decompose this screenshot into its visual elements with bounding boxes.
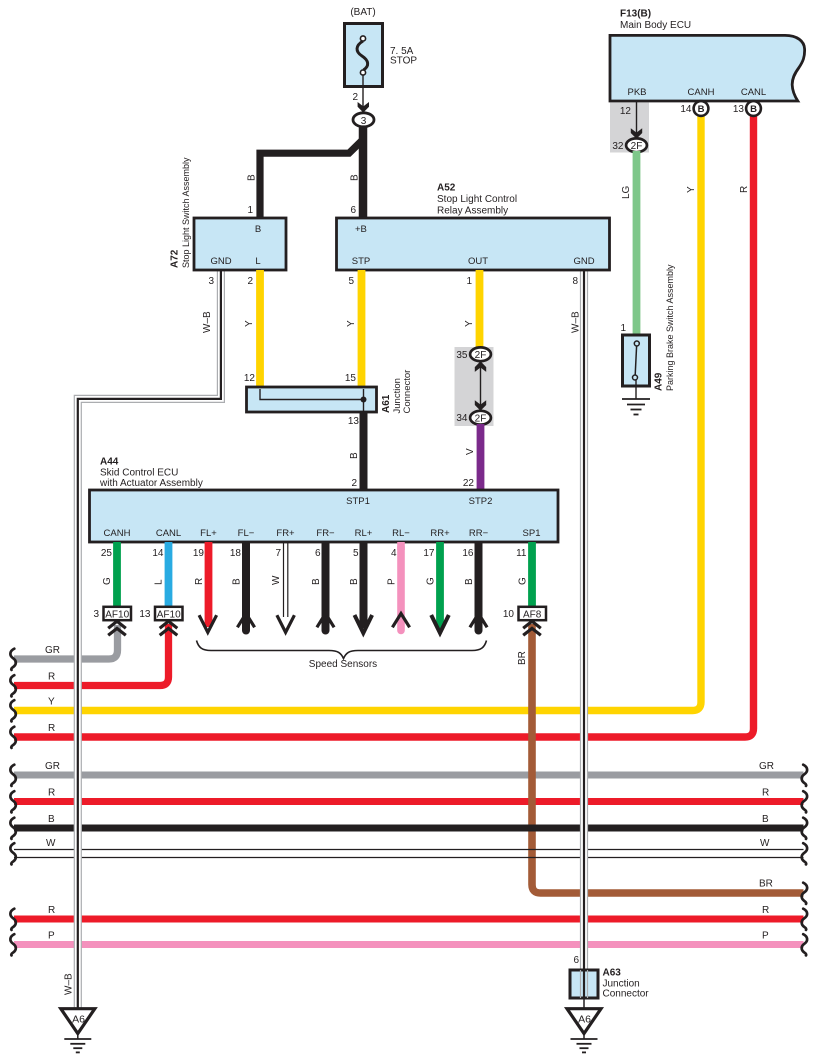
arrow open down (FR+) — [277, 615, 295, 632]
bus break marks left — [10, 649, 15, 670]
svg-text:13: 13 — [733, 104, 745, 115]
svg-text:A49: A49 — [654, 372, 665, 391]
A72 Stop Light Switch Assembly — [194, 218, 286, 270]
wire R (group2 bus) — [14, 798, 804, 805]
svg-text:4: 4 — [391, 548, 397, 559]
svg-text:BR: BR — [759, 879, 773, 890]
A61 Junction Connector — [247, 387, 377, 412]
arrow open up (FR-) — [317, 614, 334, 628]
svg-text:W: W — [46, 838, 56, 849]
svg-text:L: L — [154, 579, 165, 585]
svg-text:R: R — [48, 723, 55, 734]
svg-text:RR+: RR+ — [430, 528, 450, 539]
A52 Stop Light Control Relay Assembly — [337, 218, 610, 270]
svg-text:R: R — [48, 672, 55, 683]
svg-text:18: 18 — [230, 548, 242, 559]
svg-text:Skid Control ECU: Skid Control ECU — [100, 468, 178, 479]
svg-text:Connector: Connector — [603, 989, 650, 1000]
svg-text:FL+: FL+ — [200, 528, 217, 539]
connector AF8 (pin10) — [519, 607, 547, 620]
svg-text:B: B — [349, 452, 360, 459]
arrow open up (RR-) — [470, 614, 487, 628]
svg-text:Y: Y — [686, 186, 697, 193]
svg-text:P: P — [762, 931, 769, 942]
bus break marks right — [802, 765, 807, 786]
arrow open up (FL-) — [237, 614, 254, 628]
svg-text:AF10: AF10 — [157, 609, 181, 620]
svg-text:12: 12 — [620, 106, 632, 117]
svg-text:Y: Y — [346, 320, 357, 327]
svg-text:B: B — [750, 104, 757, 115]
svg-text:PKB: PKB — [627, 87, 646, 98]
svg-text:Connector: Connector — [402, 370, 413, 414]
connector B (F13 CANL pin13) — [746, 101, 761, 116]
arrow open down (FL+) — [199, 615, 217, 632]
wire V (2F 34 to A44 STP2) — [477, 424, 485, 490]
svg-text:16: 16 — [462, 548, 474, 559]
wire LG (2F 32 to A49 pin1) — [633, 151, 641, 335]
wire Y (A52 STP to A61 pin15) — [358, 270, 366, 387]
svg-text:A52: A52 — [437, 183, 456, 194]
wire W (FR+) — [283, 542, 285, 617]
A44 Skid Control ECU with Actuator Assembly — [90, 490, 559, 542]
svg-text:R: R — [48, 788, 55, 799]
svg-text:B: B — [311, 578, 322, 585]
wire GR (group1, to AF10 pin3) — [14, 625, 118, 659]
svg-text:Y: Y — [48, 697, 55, 708]
svg-text:R: R — [194, 578, 205, 585]
svg-text:CANH: CANH — [104, 528, 131, 539]
wire G (SP1 to AF8) — [528, 542, 536, 607]
svg-text:G: G — [102, 577, 113, 585]
svg-text:17: 17 — [423, 548, 435, 559]
wire L (CANL to AF10) — [165, 542, 173, 607]
A63 Junction Connector — [570, 970, 598, 998]
svg-text:A44: A44 — [100, 457, 119, 468]
wire Y (group1, to F13 CANH) — [14, 112, 701, 711]
wire Y (A52 OUT to 2F pin35) — [476, 270, 484, 349]
wire GR (group2 bus) — [14, 772, 804, 779]
svg-text:STP2: STP2 — [469, 496, 493, 507]
brace Speed Sensors — [197, 641, 487, 659]
ground (A49) — [635, 380, 637, 399]
svg-text:Stop Light Control: Stop Light Control — [437, 194, 517, 205]
connector 2F pin35 — [470, 347, 491, 361]
svg-text:A61: A61 — [381, 394, 392, 413]
svg-text:15: 15 — [345, 373, 357, 384]
svg-text:6: 6 — [350, 205, 356, 216]
svg-text:A6: A6 — [578, 1014, 591, 1026]
svg-text:12: 12 — [244, 373, 256, 384]
svg-text:GND: GND — [573, 256, 594, 267]
wire G (RR+) — [436, 542, 444, 629]
wire B (RL+) — [360, 542, 368, 628]
svg-text:P: P — [387, 578, 398, 585]
A49 Parking Brake Switch Assembly — [623, 335, 650, 386]
wire P (RL-) — [397, 547, 405, 631]
svg-text:34: 34 — [456, 413, 468, 424]
svg-text:SP1: SP1 — [523, 528, 541, 539]
svg-text:2: 2 — [352, 92, 358, 103]
svg-text:RL+: RL+ — [355, 528, 373, 539]
svg-text:B: B — [349, 578, 360, 585]
svg-text:5: 5 — [348, 276, 354, 287]
svg-text:GR: GR — [45, 645, 60, 656]
svg-text:G: G — [518, 577, 529, 585]
wire B (group2 bus) — [14, 825, 804, 832]
svg-text:+B: +B — [355, 224, 367, 235]
svg-text:1: 1 — [247, 205, 253, 216]
svg-text:P: P — [48, 931, 55, 942]
svg-text:A63: A63 — [603, 968, 622, 979]
svg-text:2F: 2F — [475, 350, 487, 361]
wire B (FL-) — [242, 547, 250, 631]
arrow open up (RL-) — [392, 614, 409, 628]
svg-text:2F: 2F — [475, 413, 487, 424]
svg-text:R: R — [762, 788, 769, 799]
svg-text:1: 1 — [466, 276, 472, 287]
svg-text:22: 22 — [463, 478, 475, 489]
svg-text:B: B — [255, 224, 261, 235]
svg-text:Relay Assembly: Relay Assembly — [437, 205, 508, 216]
svg-text:FR+: FR+ — [276, 528, 295, 539]
svg-text:13: 13 — [348, 416, 360, 427]
connector B (F13 CANH pin14) — [694, 101, 709, 116]
svg-text:BR: BR — [517, 651, 528, 665]
ground A6 (left) — [61, 1009, 95, 1034]
wire BR (SP1 to right edge) — [532, 624, 804, 893]
svg-text:R: R — [739, 186, 750, 193]
svg-text:STOP: STOP — [390, 56, 417, 67]
svg-text:Parking Brake Switch Assembly: Parking Brake Switch Assembly — [665, 264, 675, 391]
svg-text:13: 13 — [139, 609, 151, 620]
svg-text:2: 2 — [247, 276, 253, 287]
svg-text:R: R — [762, 905, 769, 916]
svg-text:RL−: RL− — [392, 528, 410, 539]
wire P (group3 bus) — [14, 941, 804, 948]
svg-text:3: 3 — [208, 276, 214, 287]
wire B (A61 pin13 to A44 STP1) — [360, 412, 368, 490]
svg-text:Main Body ECU: Main Body ECU — [620, 20, 691, 31]
svg-text:2F: 2F — [631, 141, 643, 152]
shield PKB (gray) — [610, 103, 649, 153]
svg-text:B: B — [762, 814, 769, 825]
wire R (group1, to F13 CANL) — [14, 112, 754, 737]
svg-text:B: B — [698, 104, 705, 115]
svg-text:LG: LG — [621, 185, 632, 199]
arrow down (above 2F 34) — [475, 400, 486, 411]
svg-text:B: B — [464, 578, 475, 585]
svg-text:25: 25 — [101, 548, 113, 559]
svg-text:FL−: FL− — [238, 528, 255, 539]
wire (2F link) — [480, 367, 482, 405]
svg-text:L: L — [255, 256, 260, 267]
connector 2F pin34 — [470, 411, 491, 425]
svg-text:Y: Y — [244, 320, 255, 327]
svg-text:A6: A6 — [72, 1014, 85, 1026]
connector 2F pin32 — [626, 138, 647, 152]
svg-text:with Actuator Assembly: with Actuator Assembly — [99, 478, 203, 489]
svg-text:6: 6 — [315, 548, 321, 559]
wire W-B (A72 GND pin3 to left ground A6) — [78, 270, 221, 1009]
svg-text:AF8: AF8 — [523, 609, 542, 620]
svg-text:GND: GND — [210, 256, 231, 267]
svg-text:OUT: OUT — [468, 256, 488, 267]
svg-text:B: B — [48, 814, 55, 825]
svg-text:W: W — [760, 838, 770, 849]
svg-text:W: W — [271, 575, 282, 585]
svg-text:2: 2 — [351, 478, 357, 489]
ground A6 (right) — [567, 1009, 601, 1034]
wire W-B (A52 GND pin8 to A63) — [580, 270, 588, 998]
wire R (group3 bus) — [14, 916, 804, 923]
svg-text:STP1: STP1 — [346, 496, 370, 507]
arrow up (below 2F 35) — [475, 361, 486, 372]
svg-text:3: 3 — [361, 116, 367, 127]
wire R (FL+) — [205, 542, 213, 627]
wire R (group1, to AF10 pin13) — [14, 624, 169, 686]
connector AF10 (pin13) — [155, 607, 183, 620]
svg-text:6: 6 — [573, 955, 579, 966]
svg-text:W–B: W–B — [64, 973, 75, 995]
svg-text:W–B: W–B — [202, 311, 213, 333]
svg-text:B: B — [232, 578, 243, 585]
svg-text:W–B: W–B — [571, 311, 582, 333]
svg-text:F13(B): F13(B) — [620, 9, 651, 20]
svg-text:RR−: RR− — [469, 528, 489, 539]
svg-text:G: G — [426, 577, 437, 585]
arrow down (above 2F 32) — [631, 128, 642, 139]
svg-text:CANL: CANL — [156, 528, 181, 539]
connector oval 3 — [353, 113, 374, 127]
wire (PKB to 2F 32) — [636, 101, 638, 133]
svg-text:Stop Light Switch Assembly: Stop Light Switch Assembly — [181, 157, 191, 268]
shield 2F (gray) — [455, 347, 494, 426]
svg-text:GR: GR — [45, 761, 60, 772]
svg-text:A72: A72 — [170, 249, 181, 268]
svg-text:14: 14 — [152, 548, 164, 559]
arrow filled down (RL+) — [355, 615, 373, 633]
svg-text:Speed Sensors: Speed Sensors — [309, 659, 377, 670]
svg-text:FR−: FR− — [316, 528, 335, 539]
svg-text:1: 1 — [620, 323, 626, 334]
svg-text:V: V — [465, 448, 476, 455]
wire W (group2 bus) — [14, 849, 804, 851]
fuse STOP 7.5A (BAT) — [345, 24, 383, 87]
wire B (FR-) — [322, 547, 330, 631]
svg-text:B: B — [247, 174, 258, 181]
svg-text:7: 7 — [275, 548, 281, 559]
wire (A63 to ground) — [583, 998, 585, 1009]
svg-text:5: 5 — [353, 548, 359, 559]
wire B (RR-) — [475, 547, 483, 631]
svg-text:14: 14 — [680, 104, 692, 115]
svg-text:B: B — [350, 174, 361, 181]
svg-text:10: 10 — [503, 609, 515, 620]
wire Y (A72 L to A61 pin12) — [256, 270, 264, 387]
svg-text:GR: GR — [759, 761, 774, 772]
connector AF10 (pin3) — [104, 607, 132, 620]
svg-text:AF10: AF10 — [105, 609, 129, 620]
svg-text:STP: STP — [352, 256, 370, 267]
arrow filled down (RR+) — [431, 615, 449, 633]
wire G (CANH to AF10) — [113, 542, 121, 607]
svg-text:(BAT): (BAT) — [350, 7, 375, 18]
svg-text:R: R — [48, 905, 55, 916]
svg-text:19: 19 — [193, 548, 205, 559]
svg-text:32: 32 — [612, 141, 624, 152]
svg-text:Y: Y — [464, 320, 475, 327]
svg-text:35: 35 — [456, 350, 468, 361]
svg-text:11: 11 — [516, 548, 527, 559]
wire B (battery feed: oval 3 to A52 +B and A72 B) — [359, 125, 368, 218]
F13(B) Main Body ECU — [610, 35, 805, 101]
svg-text:CANH: CANH — [688, 87, 715, 98]
svg-text:8: 8 — [572, 276, 578, 287]
svg-text:CANL: CANL — [741, 87, 766, 98]
arrow down (to oval 3) — [358, 102, 369, 113]
svg-text:3: 3 — [93, 609, 99, 620]
